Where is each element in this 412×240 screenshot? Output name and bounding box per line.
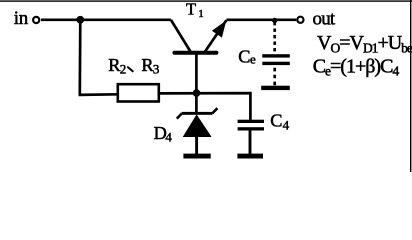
label T1 bbox=[186, 0, 204, 20]
svg-text:C: C bbox=[270, 111, 282, 131]
svg-text:C: C bbox=[238, 46, 250, 66]
svg-text:in: in bbox=[14, 8, 29, 29]
capacitor C4 bbox=[238, 120, 264, 154]
ground bar under D4 bbox=[183, 154, 210, 159]
svg-text:4: 4 bbox=[283, 117, 290, 132]
label C4 bbox=[270, 111, 289, 133]
zener diode D4 bbox=[177, 93, 218, 154]
transistor T1 bbox=[171, 20, 227, 93]
label D4 bbox=[154, 123, 173, 145]
svg-text:3: 3 bbox=[153, 61, 160, 76]
capacitor Ce (equivalent, dashed leads) bbox=[262, 22, 290, 86]
resistor R2/R3 bbox=[118, 84, 159, 101]
node junction on input wire bbox=[76, 16, 84, 24]
svg-text:2: 2 bbox=[120, 61, 127, 76]
svg-text:T: T bbox=[186, 0, 196, 19]
terminal out bbox=[297, 17, 303, 23]
label Ce bbox=[238, 46, 256, 66]
svg-text:e: e bbox=[250, 51, 256, 66]
svg-text:out: out bbox=[313, 8, 336, 29]
node junction at transistor base / D4 / R bbox=[193, 89, 201, 97]
svg-text:1: 1 bbox=[198, 8, 204, 20]
wire: resistor to base node and on to C4 corner bbox=[159, 93, 251, 120]
ground bar under Ce bbox=[261, 86, 290, 90]
node where Ce taps output wire bbox=[272, 18, 277, 23]
ground bar under C4 bbox=[237, 154, 263, 159]
svg-text:4: 4 bbox=[165, 129, 172, 144]
label R2、R3 bbox=[108, 55, 159, 77]
wire: left vertical to resistor bbox=[79, 93, 118, 96]
terminal in bbox=[33, 17, 39, 23]
wire: junction down to resistor row bbox=[78, 20, 81, 95]
wire: in terminal to transistor collector bbox=[41, 18, 171, 21]
wire: emitter to out terminal bbox=[226, 18, 296, 21]
